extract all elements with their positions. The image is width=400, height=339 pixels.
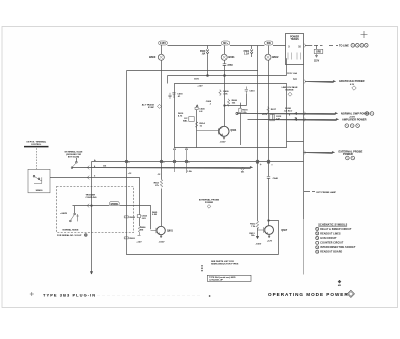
svg-text:+GATE: +GATE — [60, 212, 67, 215]
lamp GRD branch — [314, 45, 323, 62]
footer diamond — [347, 290, 354, 297]
svg-text:TO LINE: TO LINE — [339, 44, 349, 47]
svg-text:TYPE 3B3 PLUG-IN: TYPE 3B3 PLUG-IN — [43, 292, 96, 297]
connector pins J4 — [346, 156, 355, 160]
footer cross — [30, 292, 34, 296]
resistor R602 — [154, 180, 163, 188]
label external scan switch — [65, 150, 83, 158]
svg-text:POWER: POWER — [205, 202, 214, 204]
node label MODE — [110, 201, 120, 206]
wire mode to base network — [119, 206, 150, 230]
svg-text:R604: R604 — [130, 216, 136, 219]
svg-text:+12V: +12V — [267, 241, 273, 243]
svg-text:TRANS: TRANS — [290, 38, 299, 41]
wire L3 trigger line — [50, 176, 140, 214]
svg-text:EXT PROBE LAMP: EXT PROBE LAMP — [317, 191, 337, 194]
node arrow — [196, 105, 198, 107]
node +12V — [197, 85, 203, 87]
svg-text:CONTROL: CONTROL — [31, 144, 42, 146]
svg-text:.6A SLO: .6A SLO — [284, 109, 293, 112]
label fuse slo — [284, 108, 293, 113]
footer dot — [209, 296, 210, 297]
resistor R614 — [195, 122, 205, 128]
capacitor C608 — [206, 101, 212, 105]
wire R2 graticule power — [293, 79, 364, 90]
lamp B601 — [221, 54, 235, 60]
svg-text:1µF: 1µF — [276, 118, 280, 120]
svg-text:115V: 115V — [314, 60, 320, 62]
junction L1 at 186 — [185, 160, 190, 163]
resistor R609 — [219, 90, 230, 96]
svg-text:-150V: -150V — [220, 141, 226, 143]
svg-text:C640: C640 — [273, 177, 279, 180]
capacitor C612 — [270, 114, 282, 120]
resistor R610 — [178, 113, 184, 117]
svg-text:Q607: Q607 — [281, 229, 288, 232]
svg-text:SEMICONDUCTOR TYPES: SEMICONDUCTOR TYPES — [211, 264, 239, 266]
svg-text:READOUT LINES: READOUT LINES — [320, 232, 341, 235]
wire Q604 collector — [224, 76, 247, 127]
wire right rail — [303, 65, 305, 275]
svg-text:+12V: +12V — [262, 114, 268, 116]
label 115V winding — [287, 72, 297, 75]
wire B1 bottom taps — [173, 148, 187, 174]
resistor R606 — [136, 226, 146, 244]
svg-text:GRATICULE POWER: GRATICULE POWER — [339, 79, 365, 83]
wire L4 -150V lower bus — [127, 239, 279, 255]
resistor R613 — [249, 233, 261, 246]
svg-text:R603: R603 — [130, 238, 136, 240]
wire L1 -150V bus — [92, 161, 304, 163]
svg-text:SW: SW — [267, 41, 272, 45]
wire L2 external scan line — [72, 166, 253, 170]
wire Q607 collector loop — [268, 220, 279, 255]
wire H3 heater line — [168, 58, 287, 83]
wire R1 to line cord — [304, 44, 349, 48]
capacitor C615 — [168, 93, 171, 99]
svg-text:C610: C610 — [249, 90, 255, 92]
fuse F600 — [200, 46, 209, 76]
svg-text:+12V: +12V — [197, 85, 203, 87]
footer rule faint — [97, 294, 201, 296]
svg-text:+12V: +12V — [136, 242, 142, 244]
note see parts list — [211, 260, 239, 266]
connector pins J1 — [351, 44, 368, 48]
footer title left — [43, 292, 96, 297]
svg-text:Q601: Q601 — [167, 229, 174, 232]
capacitor C618 — [172, 93, 183, 98]
legend row 1 — [316, 227, 352, 230]
connector pins J2 — [365, 112, 374, 116]
transistor Q604 — [197, 126, 237, 136]
svg-text:INTERCONNECTING SOCKET: INTERCONNECTING SOCKET — [320, 247, 356, 249]
wire dashed control link — [36, 148, 38, 169]
node label SW — [265, 41, 273, 45]
node label 115V — [159, 41, 168, 45]
capacitor C604 — [137, 214, 147, 219]
registration cross mark — [361, 31, 368, 38]
svg-text:115V 1.6A: 115V 1.6A — [287, 72, 297, 75]
wire rail stub y141 — [287, 141, 304, 143]
mark 453 — [338, 280, 342, 287]
svg-text:B600: B600 — [149, 55, 156, 59]
wire B600 drop — [161, 45, 163, 162]
node +12V b — [262, 114, 268, 116]
capacitor C640 — [267, 162, 279, 226]
node label 1.5A — [187, 170, 192, 173]
connector pins J3 — [345, 124, 359, 128]
switch SW602 — [60, 206, 79, 222]
svg-text:60∿: 60∿ — [223, 41, 229, 45]
wire box B0 left — [126, 71, 128, 162]
svg-text:2.2M: 2.2M — [152, 214, 157, 216]
label line voltage range — [282, 86, 298, 96]
wire Q607 emitter — [267, 234, 273, 242]
wire R612 column — [257, 162, 259, 239]
capacitor C601 — [223, 46, 234, 76]
node diamond 601 — [241, 167, 245, 173]
svg-text:B601: B601 — [228, 55, 235, 59]
resistor R608 — [227, 99, 237, 107]
svg-text:COUNTER CIRCUIT: COUNTER CIRCUIT — [320, 243, 344, 245]
svg-text:R617: R617 — [271, 109, 277, 111]
svg-text:NORMAL MODE: NORMAL MODE — [63, 229, 80, 232]
svg-text:-150V: -150V — [159, 242, 165, 244]
transistor Q601 — [151, 226, 174, 234]
svg-text:115V: 115V — [160, 41, 166, 45]
svg-text:375V: 375V — [227, 65, 233, 67]
legend row 3 — [316, 237, 337, 240]
svg-text:READOUT BOARD: READOUT BOARD — [320, 251, 342, 254]
svg-text:POWER: POWER — [343, 152, 353, 156]
svg-text:B602: B602 — [272, 55, 279, 59]
svg-text:EXT SCAN): EXT SCAN) — [68, 155, 80, 158]
svg-text:AMPLIFIER POWER: AMPLIFIER POWER — [342, 118, 367, 122]
svg-text:BAL: BAL — [183, 119, 188, 122]
capacitor C610 — [245, 87, 256, 95]
wire B602 drop — [268, 46, 270, 162]
resistor R604 — [124, 216, 135, 219]
label for serial no — [57, 234, 87, 237]
label on pos terminal control — [24, 141, 49, 147]
svg-text:SW600: SW600 — [36, 190, 44, 192]
node label minus12 — [157, 174, 161, 176]
transformer T601 — [286, 34, 304, 65]
capacitor C624 — [195, 107, 205, 113]
svg-text:GUN CIRCUIT: GUN CIRCUIT — [320, 238, 337, 240]
svg-text:SYNC: SYNC — [148, 107, 154, 109]
wire R3 normal power — [236, 111, 370, 118]
resistor R605 — [152, 212, 158, 216]
potentiometer DC BAL — [183, 117, 194, 123]
continuation dots — [201, 265, 204, 271]
box B1 outline — [175, 84, 287, 148]
svg-text:-150V: -150V — [255, 244, 261, 246]
wire left rail — [91, 162, 93, 275]
legend row 4 — [316, 241, 344, 244]
pin label A — [94, 159, 96, 178]
node label plus12 — [128, 173, 132, 175]
label external probe — [199, 198, 220, 208]
wire collector feed Q601 — [161, 162, 163, 227]
node label 60Hz — [221, 41, 229, 45]
junction L1 at 126 — [125, 160, 130, 163]
wire Q604 emitter — [220, 136, 226, 143]
node label 115 — [103, 166, 107, 168]
svg-text:COUPLING: COUPLING — [86, 197, 97, 199]
wire R604 column — [126, 162, 128, 240]
label alt trace sync — [142, 103, 162, 108]
legend row 2 — [316, 232, 341, 235]
dashed box serial range — [57, 187, 134, 233]
svg-text:to RQ1001-UP: to RQ1001-UP — [209, 278, 223, 281]
wire line bus — [168, 45, 286, 47]
svg-text:MODE: MODE — [111, 203, 119, 206]
svg-text:DELAY & SWEEP CIRCUIT: DELAY & SWEEP CIRCUIT — [320, 228, 352, 231]
label normal mode — [63, 229, 80, 232]
legend title — [318, 223, 347, 226]
junction L1 at 269 — [267, 160, 273, 165]
wire mode line — [73, 204, 110, 208]
svg-text:FOR SERIAL NO. 101-UP: FOR SERIAL NO. 101-UP — [57, 234, 82, 237]
wire vertical to L1 — [257, 46, 259, 162]
wire Q601 emitter — [159, 235, 165, 244]
junction L1 at 161 — [160, 160, 165, 163]
label trigger — [86, 194, 97, 199]
svg-text:1.2A: 1.2A — [244, 53, 249, 56]
svg-text:115V: 115V — [194, 78, 200, 80]
wire box B0 top — [127, 70, 259, 72]
legend row 5 — [316, 246, 356, 249]
footer title right — [268, 292, 349, 297]
wire R614 column — [196, 106, 198, 148]
legend row 6 — [316, 250, 343, 253]
resistor R603 — [124, 237, 135, 240]
svg-text:OPERATING MODE POWER: OPERATING MODE POWER — [268, 292, 349, 297]
lamp B600 — [149, 54, 164, 60]
switch SW601 box — [28, 169, 50, 193]
label external probe lamp — [304, 191, 336, 194]
transistor Q607 — [258, 226, 288, 235]
wire C604 column — [139, 213, 141, 226]
svg-text:SEE PARTS LIST FOR: SEE PARTS LIST FOR — [211, 260, 234, 263]
junction L1 at 257 — [256, 160, 261, 165]
fuse F601 — [244, 46, 253, 57]
svg-text:GRD: GRD — [316, 52, 321, 54]
resistor R617 — [267, 107, 277, 114]
svg-text:1.5A: 1.5A — [187, 170, 192, 173]
pin labels B1 right — [289, 114, 298, 119]
svg-text:.6A: .6A — [202, 53, 206, 56]
switch SW external scan — [71, 158, 77, 168]
wire R4 amplifier power — [248, 114, 367, 122]
resistor R618 column — [239, 103, 248, 145]
junction L1 at 174 — [173, 160, 176, 163]
wire R5 external probe power — [304, 149, 363, 156]
lamp B602 — [265, 54, 279, 60]
svg-text:Q604: Q604 — [230, 129, 237, 132]
note box serial — [207, 275, 251, 281]
resistor R612 — [250, 221, 259, 229]
